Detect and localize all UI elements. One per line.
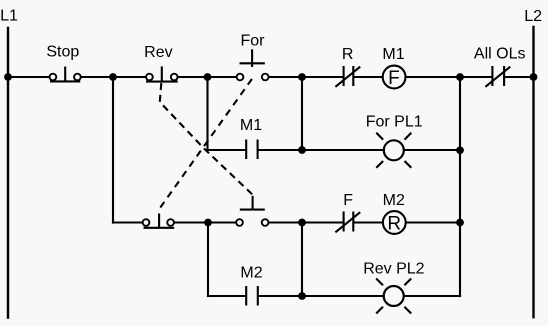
- junction node E-rung4: [298, 292, 306, 300]
- pushbutton For NO contact: [237, 49, 269, 80]
- wire rung1 coil M1 to All OLs: [405, 76, 493, 78]
- svg-text:Rev PL2: Rev PL2: [363, 261, 424, 278]
- svg-text:F: F: [343, 192, 353, 209]
- wire rung3 contact F to coil M2: [353, 221, 383, 223]
- wire rung3 coil M2 to right bus: [405, 221, 460, 223]
- junction node D: [204, 219, 212, 227]
- wire rung1 L1 to Stop: [8, 76, 50, 78]
- svg-text:L1: L1: [0, 7, 18, 24]
- svg-text:F: F: [388, 68, 400, 89]
- wire rung1 For to contact R: [269, 76, 344, 78]
- svg-text:M2: M2: [383, 192, 405, 209]
- junction node rail-rung1: [4, 73, 12, 81]
- mechanical link dashed For to rung3 NC contact: [160, 79, 252, 208]
- pilot lamp Rev PL2: [376, 279, 411, 314]
- svg-text:R: R: [387, 213, 401, 234]
- wire rung3 between pushbutton contacts: [174, 221, 236, 223]
- junction node C-rung2: [298, 146, 306, 154]
- pushbutton Rev NO contact (rung3): [236, 196, 268, 226]
- junction node right bus rung1: [456, 73, 464, 81]
- svg-text:For PL1: For PL1: [366, 113, 423, 130]
- wire vertical node B (after Rev) down to rung2: [206, 77, 208, 151]
- NC contact R (reverse interlock): [335, 66, 360, 87]
- wire rung3 to contact F: [269, 221, 344, 223]
- wire rung1 All OLs to L2: [504, 76, 533, 78]
- wire rung3 left riser to contact: [112, 221, 142, 223]
- pushbutton Stop (NC): [50, 67, 81, 82]
- pilot lamp For PL1: [376, 133, 411, 168]
- NC contact F (forward interlock): [335, 212, 360, 233]
- wire rung4 lamp PL2 to right bus: [403, 295, 461, 297]
- pushbutton For NC contact (rung3): [143, 214, 175, 228]
- svg-text:For: For: [241, 32, 266, 49]
- NO contact M2 seal-in: [246, 286, 258, 306]
- pushbutton Rev NC contact: [146, 66, 178, 81]
- wire rung2 lamp PL1 to right bus: [404, 149, 461, 151]
- mechanical link dashed Rev to rung3 NO contact: [160, 83, 253, 195]
- wire rung1 Rev to For: [178, 76, 237, 78]
- wire vertical node D (rung3) down to rung4: [207, 223, 209, 298]
- svg-text:L2: L2: [524, 8, 542, 25]
- power rail L1: [7, 27, 9, 319]
- NC overload contact All OLs: [485, 66, 510, 87]
- junction node E: [298, 219, 306, 227]
- junction node right bus rung3: [456, 219, 464, 227]
- junction node B: [204, 73, 212, 81]
- power rail L2: [532, 26, 534, 319]
- svg-text:All OLs: All OLs: [474, 46, 526, 63]
- wire rung1 Stop to Rev: [81, 76, 146, 78]
- junction node rail L2 rung1: [530, 73, 538, 81]
- wire rung4 left to contact M2: [207, 295, 246, 297]
- wire rung2 contact M1 to lamp PL1: [258, 149, 385, 151]
- junction node C: [298, 73, 306, 81]
- wire rung1 contact R to coil M1: [353, 76, 383, 78]
- svg-text:M2: M2: [240, 265, 262, 282]
- svg-text:M1: M1: [382, 46, 404, 63]
- wire vertical node E (rung3) down to rung4: [301, 223, 303, 297]
- NO contact M1 seal-in: [246, 140, 257, 160]
- coil M2 (R): [383, 211, 406, 234]
- wire vertical node A (after Stop) down to rung3: [112, 77, 114, 224]
- svg-text:R: R: [342, 46, 354, 63]
- coil M1 (F): [383, 66, 406, 89]
- wire rung2 left to contact M1: [206, 149, 246, 151]
- wire vertical node C (after For) down to rung2: [301, 77, 303, 150]
- svg-text:Stop: Stop: [46, 43, 79, 60]
- svg-text:Rev: Rev: [144, 44, 172, 61]
- junction node A: [109, 73, 117, 81]
- wire rung4 contact M2 to lamp PL2: [258, 295, 384, 297]
- wire vertical right bus down to rung4: [459, 77, 461, 297]
- svg-text:M1: M1: [240, 117, 262, 134]
- junction node right bus rung2: [456, 146, 464, 154]
